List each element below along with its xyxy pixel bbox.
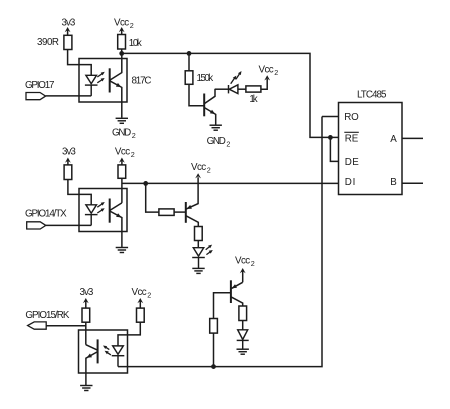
svg-text:2: 2: [130, 21, 134, 30]
resistor R2 10k: [118, 35, 126, 50]
wire R7 to Q2 base: [174, 211, 186, 213]
svg-text:2: 2: [251, 259, 255, 268]
resistor R6: [118, 165, 126, 178]
svg-text:817C: 817C: [132, 76, 152, 87]
svg-text:DE: DE: [345, 157, 359, 168]
light arrows U2: [97, 72, 105, 83]
LED D1 (horizontal): [229, 85, 238, 94]
power Vcc2 label (middle): [115, 147, 135, 160]
LED inside U4: [112, 346, 125, 367]
power arrow 3v3 (bottom): [83, 298, 89, 308]
svg-text:150k: 150k: [197, 73, 214, 84]
IC U1 LTC485 box: [339, 103, 403, 195]
node bottom bus: [211, 364, 216, 369]
node Q2 base tap: [143, 181, 148, 186]
wire R12 to LED anode: [118, 322, 140, 346]
power arrow Vcc2 (middle): [119, 158, 125, 165]
resistor R10: [239, 306, 247, 321]
svg-text:RO: RO: [344, 112, 359, 123]
pin label RE with overline: [344, 132, 359, 144]
node RE junction: [328, 135, 333, 140]
svg-text:GND: GND: [207, 136, 226, 147]
resistor R11: [82, 308, 90, 322]
wire D1 to R4: [238, 88, 246, 90]
resistor R5: [64, 165, 72, 180]
light arrows D3: [206, 245, 213, 255]
power arrow 3v3 (top left): [65, 27, 71, 35]
svg-text:B: B: [390, 177, 397, 188]
svg-text:3v3: 3v3: [80, 287, 94, 298]
light arrows U3: [97, 202, 105, 213]
wire pin A: [402, 137, 423, 139]
svg-text:A: A: [390, 134, 397, 145]
svg-text:GPIO15/RK: GPIO15/RK: [25, 310, 69, 321]
wire R5 to LED anode: [68, 180, 91, 206]
node opto1 collector: [119, 51, 124, 56]
wire node to R7: [146, 183, 159, 212]
svg-text:2: 2: [132, 131, 136, 140]
LED inside U3: [85, 205, 98, 226]
svg-text:GPIO17: GPIO17: [25, 80, 54, 91]
node 150k tap: [187, 51, 192, 56]
svg-text:1k: 1k: [249, 94, 257, 105]
wire R10 to diode D4: [242, 321, 244, 330]
power arrow Vcc2 (Q2): [195, 173, 201, 178]
svg-text:3v3: 3v3: [62, 17, 76, 28]
optocoupler U3 box: [79, 189, 127, 232]
power arrow 3v3 (middle): [65, 158, 71, 165]
resistor R9: [210, 319, 218, 334]
svg-text:Vcc: Vcc: [259, 64, 274, 75]
power Vcc2 label (R4): [259, 64, 279, 77]
ground under U3: [116, 248, 128, 253]
wire R9 to bottom bus: [213, 333, 215, 367]
power arrow Vcc2 (top): [119, 27, 125, 35]
svg-text:2: 2: [226, 140, 230, 149]
wire R2 to node: [121, 49, 123, 53]
transistor Q3 (PNP): [231, 280, 243, 306]
svg-text:Vcc: Vcc: [115, 147, 130, 158]
resistor R7 (horizontal): [159, 209, 174, 216]
wire node to R3: [188, 53, 190, 70]
wire DI bus: [122, 182, 339, 184]
svg-text:2: 2: [131, 150, 135, 159]
svg-text:LTC485: LTC485: [357, 89, 387, 100]
wire bottom bus to RO: [118, 117, 322, 367]
svg-text:DI: DI: [345, 177, 356, 188]
optocoupler U2 817C box: [79, 59, 127, 103]
phototransistor inside U3: [110, 199, 122, 248]
connector GPIO14/TX: [27, 222, 46, 229]
svg-text:2: 2: [207, 166, 211, 175]
phototransistor inside U2: [110, 53, 122, 117]
wire R1 to LED anode: [68, 50, 92, 76]
wire top bus to LTC485: [122, 53, 331, 137]
LED inside U2: [85, 75, 98, 96]
wire R4 to Vcc2: [261, 79, 267, 89]
svg-text:Vcc: Vcc: [235, 255, 250, 266]
resistor R8: [195, 227, 203, 241]
svg-text:Vcc: Vcc: [132, 287, 147, 298]
LED D3: [192, 248, 205, 269]
svg-text:RE: RE: [345, 133, 359, 144]
power Vcc2 label (top): [114, 17, 134, 30]
optocoupler U4 box: [79, 330, 128, 373]
wire Q1 collector to LED D1: [215, 88, 229, 90]
light arrows D1: [231, 71, 242, 84]
svg-text:390R: 390R: [37, 37, 59, 48]
net label GND2: [112, 127, 136, 140]
svg-text:Vcc: Vcc: [114, 17, 129, 28]
transistor Q1: [204, 89, 216, 125]
wire Q3 base to R9: [214, 293, 231, 319]
resistor R4 1k: [246, 86, 261, 92]
wire R6 to opto2 collector: [121, 178, 123, 203]
svg-text:2: 2: [274, 68, 278, 77]
wire RO pin: [322, 116, 339, 118]
wire R3 to Q1 base: [189, 84, 204, 105]
wire GPIO14 to LED cathode: [46, 224, 91, 226]
resistor R1 390R: [64, 35, 72, 49]
net label GND2 (Q1): [207, 136, 231, 149]
ground under U4: [80, 386, 92, 391]
ground under D3: [192, 268, 204, 273]
power Vcc2 label (bottom): [132, 287, 152, 300]
svg-text:Vcc: Vcc: [191, 162, 206, 173]
ground GND2 under U2: [116, 118, 128, 123]
svg-text:GPIO14/TX: GPIO14/TX: [25, 208, 67, 219]
svg-text:GND: GND: [112, 127, 131, 138]
wire R11 to opto4 collector: [85, 322, 87, 345]
wire GPIO15 to opto4: [46, 325, 86, 327]
svg-text:3v3: 3v3: [62, 147, 76, 158]
wire pin B: [402, 182, 423, 184]
phototransistor inside U4 (mirrored): [86, 339, 98, 385]
power Vcc2 label (Q2): [191, 162, 211, 175]
power arrow Vcc2 (Q3): [240, 268, 246, 282]
diode D4: [237, 330, 249, 349]
svg-text:10k: 10k: [129, 38, 142, 49]
transistor Q2 (PNP): [186, 177, 199, 226]
wire GPIO17 to LED cathode: [46, 95, 92, 97]
resistor R12: [137, 308, 145, 322]
connector GPIO17: [26, 93, 46, 100]
power Vcc2 label (Q3): [235, 255, 255, 268]
ground under D4: [237, 349, 249, 354]
wire RE-DE tie: [330, 137, 338, 161]
power arrow Vcc2 (R4): [264, 75, 270, 80]
resistor R3 150k: [185, 71, 193, 85]
light arrows U4 (pointing left): [103, 346, 111, 355]
power arrow Vcc2 (bottom): [137, 298, 143, 308]
svg-text:2: 2: [147, 291, 151, 300]
wire to RE pin: [330, 136, 338, 138]
connector GPIO15/RK: [28, 322, 47, 329]
ground GND2 under Q1: [210, 125, 222, 130]
wire R8 to LED D3: [197, 241, 199, 248]
